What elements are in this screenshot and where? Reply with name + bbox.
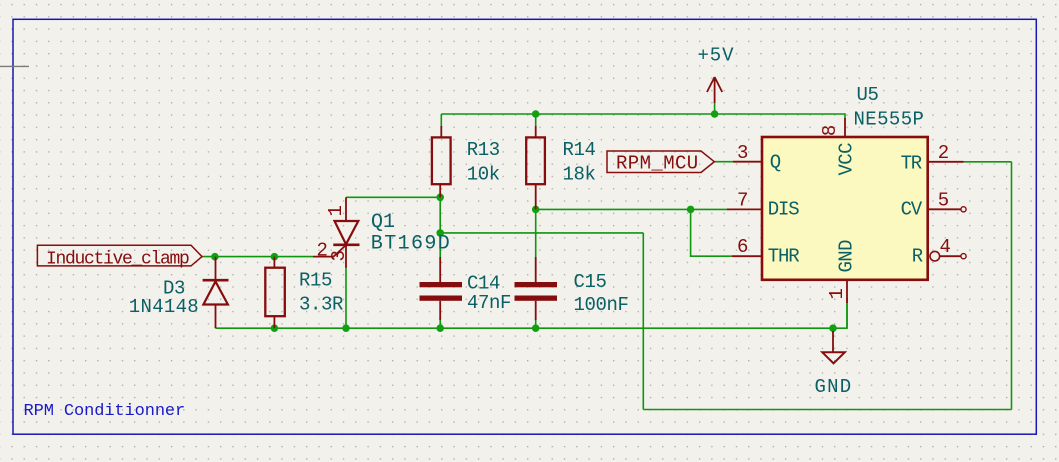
wire: TR loop bottom horizontal — [643, 409, 1011, 411]
pin 2 TR — [901, 142, 964, 175]
wire: timing node horizontal to TR loop — [440, 232, 643, 234]
svg-text:THR: THR — [768, 245, 799, 267]
hierarchical label Inductive_clamp — [37, 245, 202, 269]
junction node: DIS/THR tie — [687, 206, 695, 214]
wire: TR loop left vertical — [642, 233, 644, 410]
ground symbol GND — [822, 331, 845, 363]
diode D3 — [203, 257, 229, 329]
wire: R14 top stub — [535, 114, 537, 126]
svg-text:47nF: 47nF — [467, 292, 511, 314]
junction node: R13 bottom — [436, 194, 444, 202]
svg-text:C15: C15 — [574, 271, 607, 293]
svg-text:2: 2 — [938, 142, 949, 164]
pin 4 R (inverted) — [912, 236, 966, 267]
junction node: C15 bus — [532, 324, 540, 332]
svg-text:5: 5 — [938, 189, 949, 211]
junction node: +5V rail — [711, 110, 719, 118]
wire: timing node R13 bottom to C14 top — [439, 197, 441, 257]
svg-text:3: 3 — [737, 142, 748, 164]
wire: C15 top to DIS net — [535, 209, 537, 257]
svg-text:1: 1 — [325, 206, 347, 217]
svg-text:GND: GND — [815, 376, 853, 398]
pin 3 Q — [733, 142, 781, 174]
junction node: R14 bottom — [532, 206, 540, 214]
wire: C15 bottom to bus — [535, 318, 537, 328]
resistor R14 — [526, 126, 545, 209]
svg-text:RPM Conditionner: RPM Conditionner — [24, 402, 186, 421]
wire: Q1 anode to R13 bottom — [346, 196, 440, 198]
wire: GND symbol stub — [832, 328, 834, 333]
wire: TR pin to loop — [964, 161, 1012, 163]
wire: C14 bottom to bus — [439, 318, 441, 328]
svg-text:TR: TR — [901, 152, 922, 174]
svg-text:3.3R: 3.3R — [299, 294, 343, 316]
wire: +5V symbol stem stub — [714, 103, 716, 114]
pin 1 GND — [826, 240, 858, 303]
svg-text:R15: R15 — [299, 270, 332, 292]
svg-text:U5: U5 — [857, 84, 879, 106]
resistor R13 — [432, 126, 451, 197]
wire: Q output to RPM_MCU — [714, 161, 733, 163]
junction node: R15 top — [271, 253, 279, 261]
svg-text:RPM_MCU: RPM_MCU — [616, 153, 699, 175]
wire: ground bus y=328.2 — [216, 303, 848, 328]
pin 5 CV — [901, 189, 967, 220]
capacitor C15 — [515, 257, 558, 320]
svg-text:Inductive_clamp: Inductive_clamp — [46, 249, 189, 269]
svg-text:1: 1 — [826, 289, 848, 300]
wire: +5V rail y=114 — [441, 114, 845, 119]
svg-text:+5V: +5V — [698, 44, 735, 66]
pin 8 VCC — [819, 118, 858, 176]
junction node: GND bus — [829, 324, 837, 332]
svg-text:10k: 10k — [467, 163, 500, 185]
pin 7 DIS — [727, 189, 799, 220]
wire: DIS net horizontal — [536, 208, 727, 210]
svg-text:7: 7 — [737, 189, 748, 211]
svg-text:BT169D: BT169D — [371, 233, 451, 256]
svg-text:8: 8 — [819, 125, 841, 136]
wire: R13 top stub — [440, 114, 442, 126]
pin 6 THR — [732, 236, 799, 267]
svg-text:R14: R14 — [563, 139, 596, 161]
svg-text:Q: Q — [770, 151, 781, 173]
op-amp U1: timer IC U5 NE555P body — [762, 137, 928, 280]
junction node: R15 bottom — [271, 324, 279, 332]
svg-text:3: 3 — [328, 251, 350, 262]
svg-text:NE555P: NE555P — [854, 109, 925, 131]
resistor R15 — [265, 257, 285, 329]
hierarchical label RPM_MCU — [607, 151, 714, 175]
junction node: label/D3 — [211, 253, 219, 261]
svg-text:1N4148: 1N4148 — [129, 296, 199, 318]
svg-text:VCC: VCC — [836, 143, 858, 176]
svg-text:6: 6 — [737, 236, 748, 258]
svg-text:CV: CV — [901, 199, 923, 221]
wire: DIS-THR tie vertical — [691, 209, 732, 256]
wire: input net y=256.6 label tip to Q1 gate — [202, 256, 313, 258]
svg-text:R: R — [912, 245, 923, 267]
svg-text:DIS: DIS — [768, 199, 799, 221]
wire: TR loop right vertical — [1011, 162, 1013, 410]
wire: GND pin1 down — [846, 298, 848, 328]
svg-text:18k: 18k — [563, 163, 596, 185]
thyristor Q1 — [313, 197, 360, 267]
svg-text:R13: R13 — [467, 139, 500, 161]
svg-text:100nF: 100nF — [574, 294, 629, 316]
svg-text:2: 2 — [317, 240, 328, 262]
svg-text:4: 4 — [940, 236, 951, 258]
power symbol +5V — [707, 77, 722, 103]
junction node: Q1 cathode/bus — [342, 324, 350, 332]
wire: Q1 cathode down to bus — [345, 266, 347, 328]
svg-text:GND: GND — [836, 240, 858, 273]
capacitor C14 — [420, 257, 463, 320]
junction node: timing node branch — [436, 229, 444, 237]
svg-text:Q1: Q1 — [371, 211, 395, 234]
adjacent sheet tick (gray line, left edge) — [0, 65, 29, 67]
junction node: R14 top rail — [532, 110, 540, 118]
junction node: C14 bus — [436, 324, 444, 332]
